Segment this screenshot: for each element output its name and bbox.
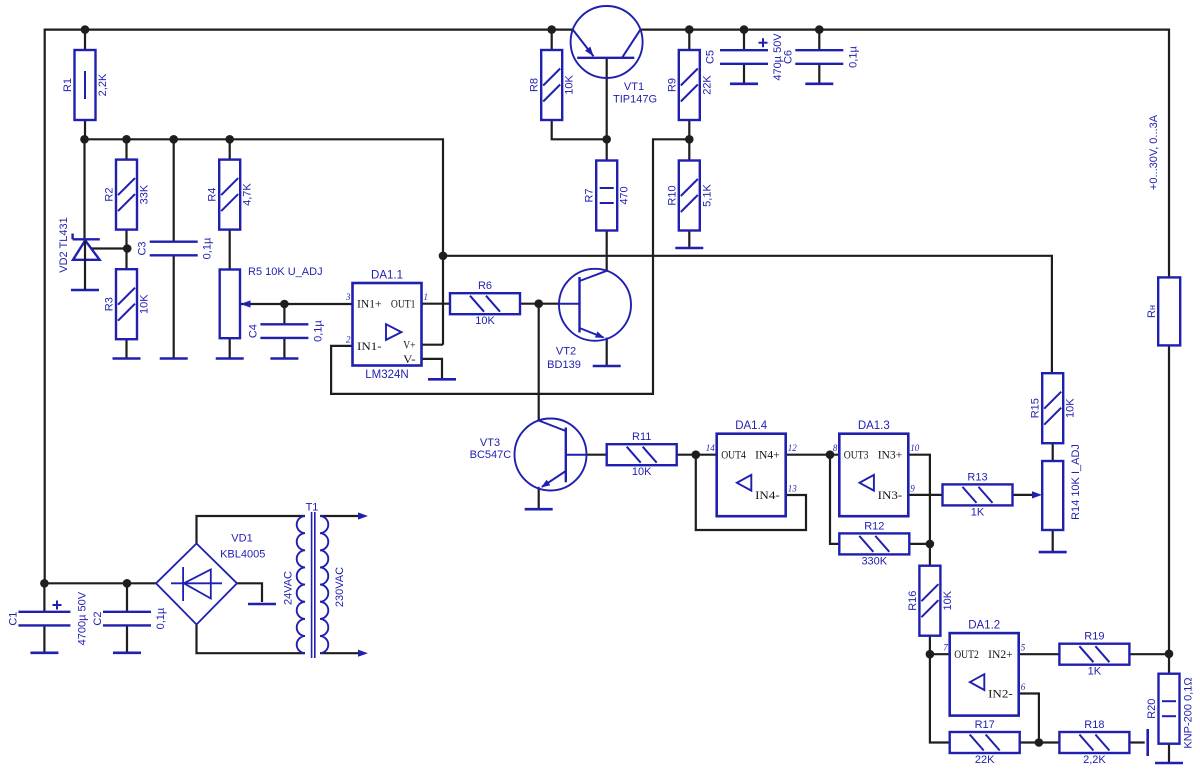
svg-text:R1: R1: [62, 78, 74, 92]
svg-text:330K: 330K: [861, 555, 887, 567]
wire IN3+ drop to R16: [909, 455, 930, 566]
node rail-C5: [740, 25, 749, 34]
svg-text:9: 9: [910, 483, 915, 493]
svg-text:T1: T1: [306, 502, 319, 514]
svg-text:BD139: BD139: [547, 359, 581, 371]
node V+ node: [439, 252, 448, 261]
op-amp DA1.1: [345, 270, 428, 382]
node R12-R16 node: [926, 540, 935, 549]
resistor R6: [450, 280, 520, 327]
ground C2: [113, 651, 141, 654]
svg-text:DA1.4: DA1.4: [735, 420, 768, 432]
svg-text:OUT2: OUT2: [954, 647, 979, 661]
svg-text:8: 8: [833, 443, 838, 453]
ground VT2 emitter: [593, 365, 621, 368]
wire R8 bottom to VT1 base node: [552, 120, 607, 140]
svg-text:VT2: VT2: [556, 346, 576, 358]
svg-text:33K: 33K: [139, 184, 151, 204]
svg-text:IN3-: IN3-: [878, 488, 903, 502]
wire R12 right lead: [909, 543, 930, 545]
wire C1 lead: [43, 583, 45, 612]
svg-text:IN4+: IN4+: [755, 448, 780, 462]
op-amp DA1.2: [943, 620, 1025, 716]
svg-text:10K: 10K: [632, 466, 652, 478]
ground VD2 anode: [71, 289, 99, 292]
svg-text:24VAC: 24VAC: [283, 571, 295, 605]
svg-text:R19: R19: [1084, 631, 1104, 643]
wire bridge bottom to T1: [197, 625, 306, 654]
resistor R2: [104, 160, 151, 230]
svg-text:IN2-: IN2-: [988, 687, 1013, 701]
wire R2-R3 lead: [125, 228, 127, 269]
svg-text:R11: R11: [632, 431, 651, 443]
wire R2 top lead: [125, 139, 127, 159]
wire IN4+ to OUT3: [787, 454, 840, 456]
transistor VT2 BD139: [547, 269, 631, 371]
wire C5 bottom lead: [743, 64, 745, 84]
node OUT4 node: [692, 450, 701, 459]
op-amp DA1.4: [706, 420, 798, 516]
node rail-R8: [547, 25, 556, 34]
svg-text:R16: R16: [907, 591, 919, 611]
wire R8 top lead: [551, 30, 553, 50]
wire C6 top lead: [818, 30, 820, 51]
wire R9 top lead: [688, 30, 690, 50]
svg-text:IN3+: IN3+: [878, 448, 903, 462]
wire VD2 ref wire: [91, 247, 127, 249]
resistor R10: [666, 161, 713, 231]
bridge rectifier VD1 KBL4005: [156, 533, 265, 625]
resistor R8: [529, 50, 576, 120]
svg-text:3: 3: [345, 292, 351, 302]
svg-text:IN4-: IN4-: [755, 488, 780, 502]
svg-text:R8: R8: [529, 78, 541, 92]
resistor R16: [907, 566, 954, 636]
node rail-R9: [685, 25, 694, 34]
wire VD2 cathode lead: [83, 139, 85, 239]
wire R15 bottom to R14: [1052, 443, 1054, 461]
wire R18 to ground: [1129, 741, 1144, 743]
svg-text:6: 6: [1021, 682, 1026, 692]
svg-text:R6: R6: [478, 280, 492, 292]
svg-text:14: 14: [706, 443, 716, 453]
potentiometer R14: [1032, 444, 1082, 530]
wire R9-R10 lead: [688, 120, 690, 161]
wire R7 bottom to VT2 collector: [606, 230, 608, 271]
wire V+ supply wire y256: [443, 256, 1052, 373]
ground R3: [113, 357, 141, 360]
svg-text:13: 13: [788, 484, 798, 494]
svg-text:R4: R4: [207, 188, 219, 202]
resistor R3: [104, 269, 151, 339]
wire R14 bottom to ground: [1052, 530, 1054, 552]
resistor R1: [62, 50, 109, 120]
svg-text:22K: 22K: [975, 754, 995, 766]
svg-text:R14 10K I_ADJ: R14 10K I_ADJ: [1070, 444, 1082, 520]
svg-text:0,1µ: 0,1µ: [202, 237, 214, 259]
ground R10: [675, 247, 703, 250]
wire VT3 emitter to ground: [538, 489, 540, 510]
resistor R11: [607, 431, 677, 478]
capacitor C5: [704, 33, 784, 81]
wire R16 bottom to OUT2: [930, 635, 950, 655]
svg-text:R18: R18: [1084, 719, 1104, 731]
svg-text:Rн: Rн: [1146, 305, 1158, 318]
svg-text:VT3: VT3: [480, 437, 500, 449]
resistor R17: [950, 719, 1020, 766]
ground R20: [1155, 762, 1183, 765]
svg-text:OUT1: OUT1: [391, 297, 416, 311]
svg-text:BC547C: BC547C: [470, 449, 512, 461]
node rail-C6: [815, 25, 824, 34]
wire VT3 collector riser: [538, 304, 540, 421]
svg-text:0,1µ: 0,1µ: [847, 46, 859, 68]
wire T1 primary bottom: [320, 652, 364, 654]
svg-text:0,1µ: 0,1µ: [312, 320, 324, 342]
svg-text:22K: 22K: [701, 75, 713, 95]
wire DA1.4 feedback loop: [696, 455, 806, 530]
zener VD2 TL431: [58, 217, 100, 290]
wire R4 top lead: [229, 139, 231, 159]
svg-text:OUT4: OUT4: [721, 448, 746, 462]
wire VT1 base lead: [606, 58, 608, 161]
wire R1 bottom lead: [84, 120, 86, 139]
node R17-R18 node: [1035, 738, 1044, 747]
transistor VT1 TIP147G: [571, 6, 657, 106]
wire IN1- feedback: [331, 139, 689, 394]
svg-text:230VAC: 230VAC: [334, 567, 346, 607]
ground V- DA1.1: [428, 378, 456, 381]
ground C3: [160, 357, 188, 360]
resistor R15: [1030, 373, 1077, 443]
resistor R7: [584, 161, 631, 231]
wire C3 bottom lead: [173, 255, 175, 358]
load resistor RH: [1158, 277, 1180, 345]
node OUT2 node: [926, 650, 935, 659]
transformer T1: [283, 502, 369, 659]
potentiometer R5: [220, 266, 323, 338]
resistor R9: [666, 50, 713, 120]
svg-text:IN2+: IN2+: [988, 647, 1013, 661]
wire R5 wiper to IN1+: [241, 303, 353, 305]
svg-text:KBL4005: KBL4005: [220, 549, 265, 561]
svg-text:C5: C5: [704, 50, 716, 64]
wire IN2- drop: [1019, 694, 1039, 743]
wire top rail right (regulated output): [640, 30, 1169, 278]
wire R10 bottom lead: [688, 230, 690, 248]
svg-text:R5 10K U_ADJ: R5 10K U_ADJ: [248, 266, 323, 278]
svg-text:DA1.1: DA1.1: [371, 270, 403, 282]
svg-text:7: 7: [943, 643, 948, 653]
wire VT3 base to R11: [586, 454, 607, 456]
svg-text:VD1: VD1: [231, 533, 252, 545]
wire OUT1 to R6: [422, 303, 451, 305]
node C1 node: [40, 579, 49, 588]
svg-text:+0...30V, 0...3A: +0...30V, 0...3A: [1148, 114, 1160, 190]
capacitor C3: [137, 237, 214, 259]
node TL431 ref node: [123, 244, 132, 253]
svg-text:C4: C4: [247, 324, 259, 338]
ground R14: [1039, 551, 1067, 554]
ground C1: [30, 651, 58, 654]
ground C6: [805, 83, 833, 86]
capacitor C1: [7, 591, 88, 645]
wire top rail left (raw DC): [45, 30, 573, 584]
svg-text:4700µ 50V: 4700µ 50V: [76, 591, 88, 645]
wire C4 top lead: [283, 304, 285, 324]
ground bridge minus: [248, 603, 276, 606]
node bus-VD2: [80, 135, 89, 144]
wire C5 top lead: [743, 30, 745, 51]
svg-text:R3: R3: [104, 297, 116, 311]
svg-text:0,1µ: 0,1µ: [155, 607, 167, 629]
node VT1 base node: [602, 135, 611, 144]
svg-text:DA1.2: DA1.2: [968, 620, 1000, 632]
wire C1 bottom lead: [43, 626, 45, 653]
node bus-R2: [122, 135, 131, 144]
node R9-R10 node: [685, 135, 694, 144]
svg-text:5,1K: 5,1K: [701, 184, 713, 207]
ground C4: [270, 357, 298, 360]
capacitor C6: [782, 46, 859, 68]
transistor VT3 BC547C: [470, 419, 587, 491]
svg-text:IN1+: IN1+: [357, 297, 382, 311]
wire R17-R18 link: [1019, 741, 1060, 743]
svg-text:2,2K: 2,2K: [1083, 754, 1106, 766]
resistor R20: [1146, 674, 1180, 744]
wire bridge top to T1: [197, 516, 306, 544]
wire R13 to R14 wiper: [1013, 494, 1037, 496]
svg-text:KNP-200 0,1Ω: KNP-200 0,1Ω: [1183, 677, 1195, 748]
svg-text:R20: R20: [1146, 699, 1158, 719]
svg-text:10K: 10K: [475, 315, 495, 327]
wire right rail R20 to ground: [1168, 743, 1170, 763]
wire C2 bottom lead: [126, 626, 128, 653]
wire T1 primary top: [320, 515, 364, 517]
wire R6 to VT2 base: [518, 303, 560, 305]
node VT2 base node: [534, 299, 543, 308]
resistor R19: [1059, 631, 1129, 678]
node C2 node: [123, 579, 132, 588]
wire R12 left drop: [830, 455, 839, 544]
svg-text:470: 470: [619, 186, 631, 204]
svg-text:C3: C3: [137, 241, 149, 255]
wire R5 bottom lead: [229, 338, 231, 358]
svg-text:VD2 TL431: VD2 TL431: [58, 217, 70, 272]
svg-text:R10: R10: [666, 185, 678, 205]
svg-text:C1: C1: [7, 612, 19, 626]
capacitor C4: [247, 320, 324, 342]
node wiper-C4 node: [280, 300, 289, 309]
wire R1 top lead: [84, 30, 86, 50]
node bus-C3: [169, 135, 178, 144]
svg-text:R9: R9: [666, 78, 678, 92]
svg-text:2: 2: [346, 334, 351, 344]
wire reference bus y139: [85, 139, 444, 344]
capacitor C2: [92, 607, 167, 629]
ground C5: [730, 83, 758, 86]
svg-text:1K: 1K: [1088, 666, 1102, 678]
svg-text:5: 5: [1021, 643, 1026, 653]
ground R18: [1146, 729, 1149, 756]
svg-text:10K: 10K: [1065, 398, 1077, 418]
svg-text:1: 1: [424, 292, 429, 302]
svg-text:R17: R17: [975, 719, 995, 731]
svg-text:DA1.3: DA1.3: [858, 420, 890, 432]
wire C3 top lead: [173, 139, 175, 241]
svg-text:V-: V-: [403, 352, 415, 366]
op-amp DA1.3: [833, 420, 920, 516]
resistor R12: [839, 520, 909, 567]
node bus-R4: [225, 135, 234, 144]
wire C1 node to bridge: [44, 582, 156, 584]
wire R3 bottom lead: [125, 339, 127, 358]
svg-text:VT1: VT1: [624, 81, 644, 93]
svg-text:V+: V+: [403, 338, 415, 352]
wire IN2+ to R19: [1019, 653, 1060, 655]
svg-text:C6: C6: [782, 50, 794, 64]
resistor R18: [1059, 719, 1129, 766]
wire IN3- to R13: [909, 494, 942, 496]
node IN4+/OUT3 node: [826, 450, 835, 459]
svg-text:R12: R12: [864, 520, 884, 532]
svg-text:1K: 1K: [971, 506, 985, 518]
svg-text:10K: 10K: [139, 294, 151, 314]
wire R19 to right rail: [1129, 653, 1169, 655]
wire V- stub to ground: [422, 359, 443, 379]
wire R4-R5 lead: [229, 230, 231, 270]
wire C6 bottom lead: [818, 64, 820, 84]
svg-text:R2: R2: [104, 188, 116, 202]
svg-text:C2: C2: [92, 612, 104, 626]
wire V+ stub: [422, 344, 444, 346]
svg-text:IN1-: IN1-: [357, 339, 382, 353]
resistor R13: [943, 471, 1013, 518]
svg-text:TIP147G: TIP147G: [613, 94, 657, 106]
wire VT2 emitter to ground: [606, 339, 608, 366]
wire C4 bottom lead: [283, 338, 285, 359]
svg-text:2,2K: 2,2K: [97, 73, 109, 96]
svg-text:4,7K: 4,7K: [242, 183, 254, 206]
svg-text:10K: 10K: [942, 590, 954, 610]
wire right rail RH to R19 node: [1168, 346, 1170, 674]
svg-text:OUT3: OUT3: [844, 448, 869, 462]
svg-text:12: 12: [788, 443, 798, 453]
wire OUT2 to R17: [930, 654, 950, 742]
ground R5: [216, 357, 244, 360]
svg-text:LM324N: LM324N: [365, 369, 408, 381]
wire bridge minus to ground: [237, 583, 262, 602]
node R19-R20 node: [1165, 650, 1174, 659]
resistor R4: [207, 160, 254, 230]
svg-text:10: 10: [910, 443, 920, 453]
svg-text:R7: R7: [584, 188, 596, 202]
ground VT3 emitter: [525, 508, 553, 511]
svg-text:R15: R15: [1030, 398, 1042, 418]
wire R11 to OUT4: [677, 454, 717, 456]
svg-text:R13: R13: [967, 471, 987, 483]
svg-text:10K: 10K: [564, 75, 576, 95]
wire C2 top lead: [126, 583, 128, 612]
node rail-R1: [81, 25, 90, 34]
